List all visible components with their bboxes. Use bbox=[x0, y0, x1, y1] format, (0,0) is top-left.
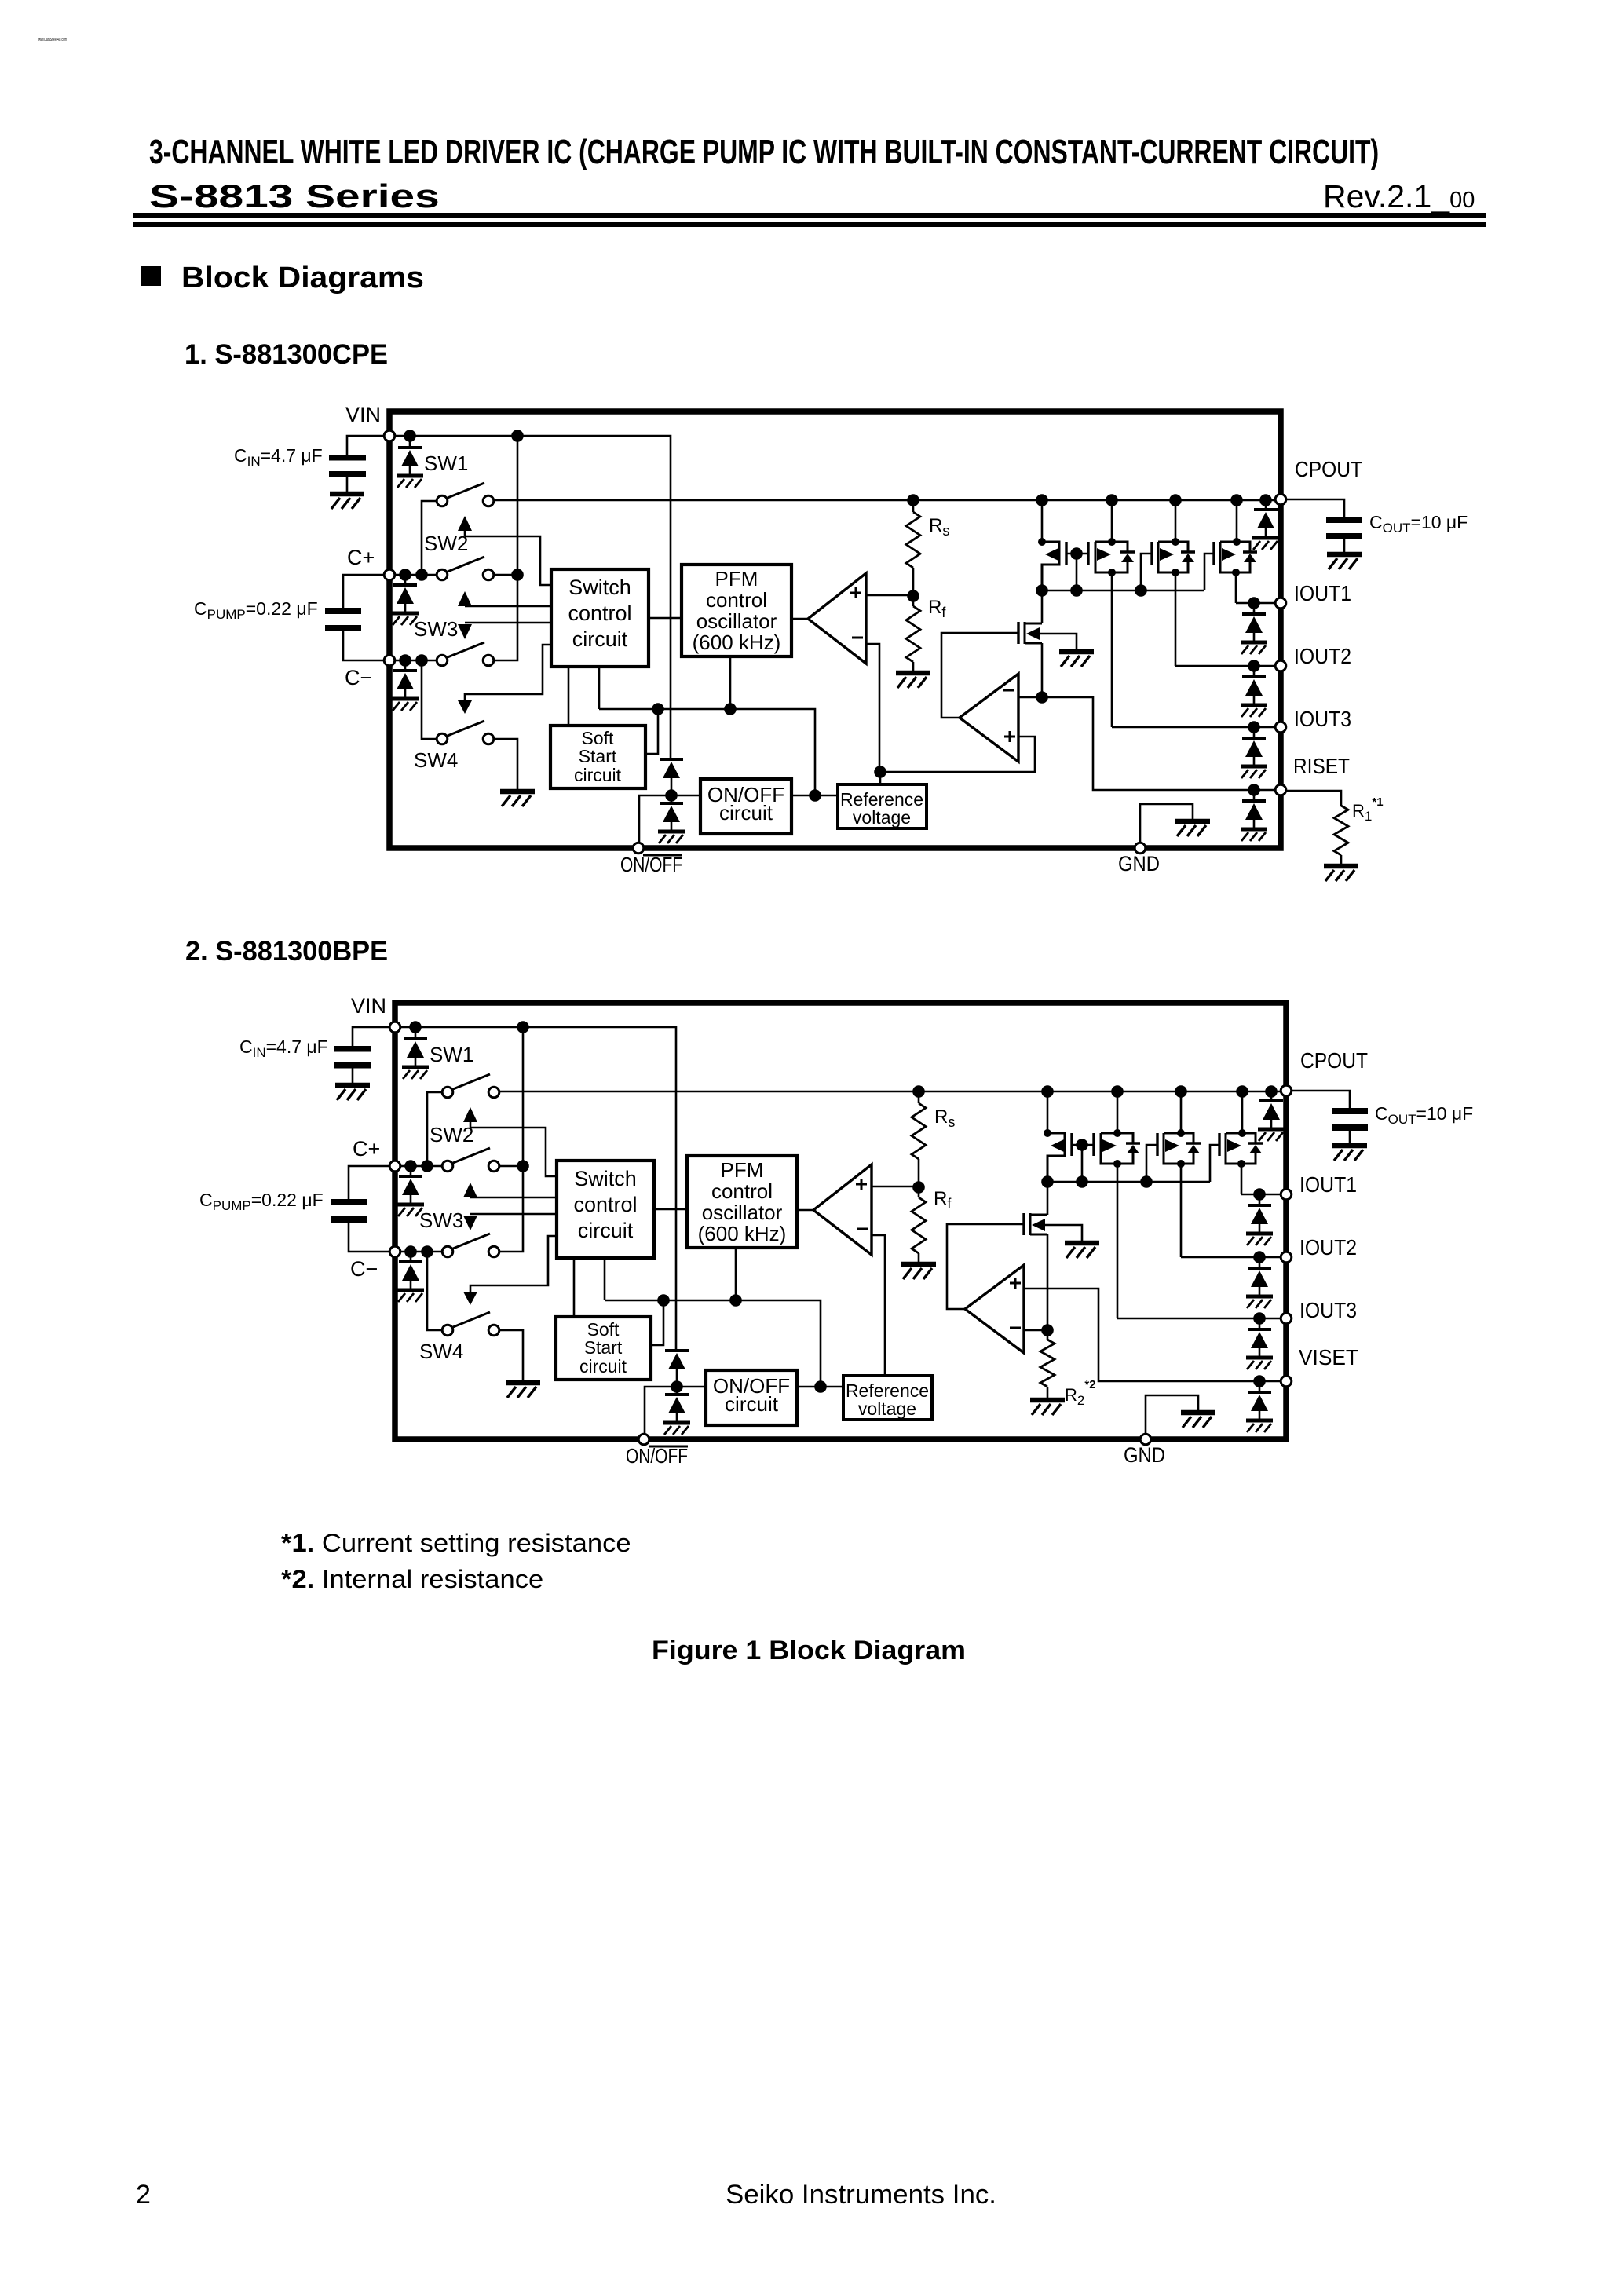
pin IOUT2 bbox=[1275, 660, 1286, 671]
ground (GND pin) bbox=[1181, 1413, 1215, 1428]
resistor Rs bbox=[912, 500, 915, 512]
svg-text:Switch: Switch bbox=[574, 1167, 637, 1190]
box Soft Start circuit bbox=[550, 726, 645, 788]
wire Q1 source to R2 bbox=[1047, 1234, 1049, 1340]
footnote 1 bbox=[281, 1530, 631, 1558]
svg-text:control: control bbox=[568, 601, 631, 625]
svg-text:Switch: Switch bbox=[568, 576, 631, 599]
wire reference tap bbox=[879, 772, 882, 784]
header rule bbox=[133, 213, 1486, 218]
junction rail 1 bbox=[1041, 1085, 1054, 1098]
svg-text:*1. Current setting resistance: *1. Current setting resistance bbox=[281, 1530, 631, 1558]
resistor Rs bbox=[918, 1091, 920, 1103]
svg-text:IOUT2: IOUT2 bbox=[1294, 644, 1351, 668]
switch SW3 bbox=[453, 1148, 490, 1163]
junction ON/OFF clamp bbox=[665, 789, 678, 802]
junction rail 5 bbox=[1259, 494, 1272, 506]
wire IOUT2 row bbox=[1181, 1256, 1281, 1259]
svg-text:GND: GND bbox=[1118, 852, 1160, 876]
junction bus-softstart bbox=[657, 1294, 670, 1307]
diode ON/OFF clamp upper bbox=[665, 1351, 689, 1387]
wire SW2 control bbox=[470, 1128, 557, 1176]
wire PFM sync bbox=[729, 656, 732, 709]
junction reference input bbox=[809, 789, 821, 802]
junction rail 3 bbox=[1175, 1085, 1187, 1098]
diode IOUT1 clamp bbox=[1259, 1194, 1261, 1205]
svg-text:PFM: PFM bbox=[715, 567, 758, 590]
wire C2 top input to RISET bbox=[1018, 697, 1276, 790]
wire SW3 control up bbox=[465, 605, 551, 608]
svg-text:3-CHANNEL WHITE LED DRIVER IC: 3-CHANNEL WHITE LED DRIVER IC (CHARGE PU… bbox=[149, 133, 1379, 171]
junction VIN feed bbox=[511, 430, 524, 442]
diode RISET clamp bbox=[1253, 790, 1256, 801]
svg-text:R2*2: R2*2 bbox=[1065, 1378, 1096, 1408]
svg-text:2. S-881300BPE: 2. S-881300BPE bbox=[185, 936, 388, 967]
junction C- a bbox=[404, 1245, 417, 1258]
junction IOUT3 bbox=[1253, 1312, 1266, 1325]
junction T1 drain bbox=[1044, 1129, 1051, 1137]
wire T4 to IOUT1 bbox=[1241, 1164, 1243, 1194]
svg-text:COUT=10 μF: COUT=10 μF bbox=[1369, 512, 1468, 536]
box Switch control circuit bbox=[557, 1161, 654, 1258]
wire VIN-to-C- vertical bbox=[495, 436, 517, 660]
capacitor CIN wiring bbox=[347, 436, 389, 455]
wire gate bus bbox=[1042, 590, 1204, 592]
pin IOUT1 bbox=[1275, 598, 1286, 609]
junction rail 2 bbox=[1106, 494, 1118, 506]
capacitor COUT wiring bbox=[1287, 499, 1344, 517]
svg-text:VISET: VISET bbox=[1299, 1345, 1358, 1369]
junction T2 drain bbox=[1108, 538, 1116, 546]
wire ON/OFF input bbox=[645, 1387, 706, 1433]
svg-text:VIN: VIN bbox=[351, 994, 386, 1018]
junction bus T1T2 bbox=[1070, 584, 1083, 597]
box PFM control oscillator bbox=[687, 1156, 797, 1248]
transistor T4 bbox=[1212, 542, 1215, 565]
transistor Q1 NMOS bbox=[1022, 1213, 1025, 1235]
wire ON/OFF to Reference bbox=[797, 1386, 843, 1388]
junction T3 source bbox=[1177, 1160, 1185, 1168]
wire SW3 control up bbox=[470, 1197, 557, 1199]
junction gate link bbox=[1076, 1139, 1088, 1151]
wire T4 gate bbox=[1204, 554, 1214, 590]
junction bus-PFM bbox=[729, 1294, 742, 1307]
svg-text:SW2: SW2 bbox=[424, 532, 468, 555]
svg-text:Rf: Rf bbox=[934, 1188, 952, 1212]
pin ON/OFF bbox=[638, 1434, 649, 1445]
wire C2 minus input bbox=[1024, 1329, 1047, 1332]
wire IOUT3 row bbox=[1112, 726, 1276, 729]
wire CPOUT rail bbox=[495, 499, 1276, 502]
wire IOUT1 row bbox=[1241, 1194, 1281, 1196]
svg-text:C−: C− bbox=[350, 1257, 378, 1281]
junction ON/OFF clamp bbox=[671, 1380, 683, 1393]
diode IOUT2 clamp bbox=[1259, 1257, 1261, 1268]
wire Q1 source sense bbox=[1041, 643, 1044, 697]
capacitor CIN bbox=[334, 1046, 371, 1052]
junction C+ a bbox=[399, 569, 411, 581]
wire Q1 gate bbox=[947, 1224, 1024, 1309]
diode T2 body bbox=[1126, 1142, 1140, 1144]
wire GND lead bbox=[1146, 1395, 1198, 1434]
junction gate link bbox=[1070, 547, 1083, 560]
IC outline bbox=[389, 411, 1281, 848]
resistor R2 bbox=[1040, 1340, 1055, 1387]
ground (Q1 body) bbox=[1059, 652, 1094, 667]
junction bus-PFM bbox=[724, 703, 737, 715]
box Reference voltage bbox=[843, 1376, 932, 1420]
resistor Rf bbox=[918, 1187, 920, 1197]
capacitor CIN wiring bbox=[353, 1027, 395, 1046]
capacitor CPUMP bbox=[331, 1199, 367, 1205]
wire PFM to C1 bbox=[791, 618, 808, 620]
junction bus T1T2 bbox=[1076, 1175, 1088, 1188]
svg-text:SW4: SW4 bbox=[414, 748, 458, 772]
wire VIN rail (VIN pin to internal clamp column) bbox=[389, 436, 671, 759]
diode C+ clamp bbox=[410, 1166, 412, 1176]
wire T2 to IOUT3 bbox=[1111, 572, 1113, 727]
diode IOUT2 clamp bbox=[1253, 666, 1256, 677]
box Soft Start circuit bbox=[556, 1317, 651, 1380]
junction IOUT2 bbox=[1253, 1251, 1266, 1263]
junction bus T3 bbox=[1140, 1175, 1153, 1188]
box Reference voltage bbox=[838, 784, 927, 828]
wire VIN rail (VIN pin to internal clamp column) bbox=[395, 1027, 676, 1351]
capacitor CPUMP wiring bbox=[343, 575, 383, 608]
wire control bus bbox=[599, 709, 815, 795]
wire IOUT1 row bbox=[1236, 602, 1276, 605]
transistor T2 bbox=[1087, 542, 1089, 565]
wire C1 minus to reference bbox=[872, 1235, 885, 1376]
transistor T4 bbox=[1218, 1133, 1220, 1156]
box ON/OFF circuit bbox=[700, 779, 791, 834]
svg-text:control: control bbox=[711, 1179, 773, 1203]
ground (Q1 body) bbox=[1065, 1243, 1099, 1258]
svg-text:SW2: SW2 bbox=[430, 1123, 473, 1146]
pin IOUT3 bbox=[1281, 1313, 1292, 1324]
node C- row bbox=[395, 1251, 441, 1253]
capacitor CPUMP wiring bbox=[349, 1166, 389, 1199]
svg-text:IOUT3: IOUT3 bbox=[1294, 707, 1351, 731]
svg-text:C−: C− bbox=[345, 666, 372, 689]
diode SW1 clamp bbox=[409, 436, 411, 448]
pin ON/OFF bbox=[633, 843, 644, 854]
wire Switch-PFM bbox=[654, 1208, 687, 1211]
pin GND bbox=[1135, 843, 1146, 854]
svg-text:*2. Internal resistance: *2. Internal resistance bbox=[281, 1566, 543, 1594]
junction VIN feed bbox=[517, 1021, 529, 1033]
box ON/OFF circuit bbox=[706, 1370, 797, 1425]
pin C+ bbox=[384, 569, 395, 580]
switch SW4 upper contacts bbox=[448, 642, 484, 657]
svg-text:GND: GND bbox=[1124, 1443, 1165, 1467]
pin C- bbox=[389, 1246, 400, 1257]
wire PFM sync bbox=[735, 1248, 737, 1300]
svg-text:C+: C+ bbox=[353, 1137, 380, 1161]
ground (COUT) bbox=[1332, 1146, 1367, 1161]
section heading Block Diagrams bbox=[141, 266, 161, 286]
wire T2 to IOUT3 bbox=[1117, 1164, 1119, 1318]
node C+ row bbox=[389, 574, 436, 576]
junction VIN-SW1 bbox=[409, 1021, 422, 1033]
wire GND lead bbox=[1140, 804, 1193, 843]
resistor R1 wiring bbox=[1287, 791, 1341, 806]
svg-text:SW1: SW1 bbox=[430, 1043, 473, 1066]
svg-text:COUT=10 μF: COUT=10 μF bbox=[1375, 1103, 1473, 1127]
ground (Rf) bbox=[901, 1264, 936, 1279]
label ON/OFF bbox=[649, 1446, 688, 1448]
junction C+ c bbox=[517, 1160, 529, 1172]
ground (SW4) bbox=[500, 792, 535, 806]
capacitor COUT bbox=[1332, 1108, 1368, 1114]
wire C1 minus to reference node bbox=[866, 644, 1035, 772]
junction T4 drain bbox=[1233, 538, 1241, 546]
svg-text:circuit: circuit bbox=[578, 1219, 634, 1242]
wire SoftStart link bbox=[651, 1300, 663, 1345]
op-amp comparator C1 bbox=[813, 1164, 872, 1255]
svg-text:IOUT2: IOUT2 bbox=[1299, 1235, 1357, 1260]
junction bus-softstart bbox=[652, 703, 664, 715]
junction IOUT3 bbox=[1248, 721, 1260, 733]
wire SW4 control bbox=[470, 1236, 557, 1292]
transistor T1 bbox=[1047, 1091, 1049, 1133]
ground (COUT) bbox=[1327, 554, 1362, 569]
junction T1 drain bbox=[1038, 538, 1046, 546]
capacitor COUT bbox=[1326, 517, 1362, 523]
svg-text:Rf: Rf bbox=[928, 597, 946, 620]
wire control bus bbox=[605, 1300, 821, 1387]
switch SW4 bbox=[422, 660, 436, 739]
wire SoftStart link bbox=[645, 709, 658, 754]
svg-text:control: control bbox=[706, 588, 767, 612]
diode IOUT1 clamp bbox=[1253, 603, 1256, 614]
svg-text:1. S-881300CPE: 1. S-881300CPE bbox=[185, 339, 388, 370]
svg-text:PFM: PFM bbox=[721, 1158, 764, 1182]
ground (R1) bbox=[1324, 866, 1358, 881]
diode SW1 clamp bbox=[415, 1027, 417, 1039]
wire T1-T2 gate link bbox=[1066, 553, 1088, 555]
svg-text:(600 kHz): (600 kHz) bbox=[693, 631, 781, 654]
junction T2 source bbox=[1113, 1160, 1121, 1168]
svg-text:CPUMP=0.22 μF: CPUMP=0.22 μF bbox=[199, 1190, 324, 1213]
junction IOUT1 bbox=[1248, 597, 1260, 609]
junction reference input bbox=[814, 1380, 827, 1393]
wire T4 gate bbox=[1210, 1145, 1219, 1182]
pin IOUT2 bbox=[1281, 1252, 1292, 1263]
wire SW2 control bbox=[465, 536, 551, 585]
svg-text:Rs: Rs bbox=[929, 515, 949, 539]
svg-text:Start: Start bbox=[584, 1337, 623, 1358]
switch SW2 bbox=[427, 1092, 441, 1166]
junction reference node bbox=[874, 766, 886, 778]
header product bbox=[149, 177, 440, 214]
box PFM control oscillator bbox=[682, 565, 791, 656]
junction T4 source bbox=[1232, 569, 1240, 576]
junction R2 node bbox=[1041, 1324, 1054, 1336]
transistor T3 bbox=[1156, 1133, 1158, 1156]
svg-text:Rs: Rs bbox=[934, 1106, 955, 1130]
switch SW4 bbox=[427, 1252, 441, 1330]
wire C1 plus input bbox=[866, 594, 909, 597]
junction T3 source bbox=[1172, 569, 1179, 576]
diode IOUT3 clamp bbox=[1259, 1318, 1261, 1329]
wire IOUT3 row bbox=[1117, 1318, 1281, 1320]
svg-text:SW3: SW3 bbox=[419, 1208, 463, 1232]
svg-text:oscillator: oscillator bbox=[702, 1201, 783, 1224]
ground (R2) bbox=[1030, 1400, 1065, 1415]
wire Q1 gate bbox=[941, 633, 1018, 718]
svg-text:CIN=4.7 μF: CIN=4.7 μF bbox=[239, 1036, 328, 1060]
junction C- b bbox=[421, 1245, 433, 1258]
transistor T1 bbox=[1041, 500, 1044, 542]
wire ON/OFF input bbox=[639, 795, 700, 842]
svg-text:Seiko Instruments Inc.: Seiko Instruments Inc. bbox=[726, 2180, 996, 2210]
wire C2 plus input to VISET bbox=[1024, 1289, 1281, 1381]
transistor T2 bbox=[1092, 1133, 1095, 1156]
diode T2 body bbox=[1120, 550, 1135, 553]
svg-text:oscillator: oscillator bbox=[696, 609, 777, 633]
ground (GND pin) bbox=[1175, 821, 1210, 836]
junction rail 2 bbox=[1111, 1085, 1124, 1098]
junction rail 4 bbox=[1236, 1085, 1248, 1098]
node C- row bbox=[389, 660, 436, 662]
junction bus T1 bbox=[1041, 1175, 1054, 1188]
junction C+ a bbox=[404, 1160, 417, 1172]
diode IOUT3 clamp bbox=[1253, 727, 1256, 738]
wire SW3 control down bbox=[470, 1213, 557, 1216]
diode T3 body bbox=[1186, 1142, 1201, 1144]
svg-text:www.DataSheet4U.com: www.DataSheet4U.com bbox=[38, 38, 67, 42]
svg-text:CPUMP=0.22 μF: CPUMP=0.22 μF bbox=[194, 598, 318, 622]
switch SW2 bbox=[422, 501, 436, 575]
svg-text:Block Diagrams: Block Diagrams bbox=[181, 261, 424, 294]
svg-text:circuit: circuit bbox=[579, 1356, 627, 1377]
junction RISET bbox=[1248, 784, 1260, 796]
diode ON/OFF clamp lower bbox=[676, 1387, 678, 1395]
junction Rs top bbox=[912, 1085, 925, 1098]
wire T3 gate bbox=[1141, 554, 1152, 590]
svg-text:RISET: RISET bbox=[1293, 754, 1350, 778]
wire CPOUT rail bbox=[500, 1091, 1281, 1093]
diode C- clamp bbox=[404, 660, 407, 671]
capacitor CPUMP bbox=[325, 608, 361, 614]
svg-text:CPOUT: CPOUT bbox=[1295, 457, 1362, 481]
svg-text:ON/OFF: ON/OFF bbox=[626, 1444, 688, 1468]
svg-text:control: control bbox=[573, 1193, 637, 1216]
svg-text:CIN=4.7 μF: CIN=4.7 μF bbox=[234, 445, 323, 469]
junction T3 drain bbox=[1172, 538, 1179, 546]
ground (CIN) bbox=[335, 1085, 370, 1100]
label ON/OFF bbox=[643, 854, 682, 857]
junction rail 3 bbox=[1169, 494, 1182, 506]
ground (CIN) bbox=[330, 494, 364, 509]
IC outline bbox=[395, 1003, 1286, 1439]
svg-text:IOUT1: IOUT1 bbox=[1294, 581, 1351, 605]
wire SW3 control down bbox=[465, 622, 551, 624]
svg-text:CPOUT: CPOUT bbox=[1300, 1048, 1368, 1073]
diode RISET clamp bbox=[1259, 1381, 1261, 1392]
wire ON/OFF to Reference bbox=[791, 795, 838, 797]
junction T4 source bbox=[1237, 1160, 1245, 1168]
switch SW4 upper contacts bbox=[453, 1234, 490, 1249]
resistor Rf bbox=[912, 596, 915, 606]
pin C- bbox=[384, 655, 395, 666]
wire PFM to C1 bbox=[797, 1209, 813, 1212]
junction Rs-Rf bbox=[907, 590, 919, 602]
junction IOUT1 bbox=[1253, 1188, 1266, 1201]
diode ON/OFF clamp upper bbox=[660, 759, 683, 795]
junction RISET bbox=[1253, 1375, 1266, 1387]
diode CPOUT clamp bbox=[1270, 1091, 1273, 1101]
svg-text:Rev.2.1_00: Rev.2.1_00 bbox=[1323, 178, 1475, 214]
junction C- b bbox=[415, 654, 428, 667]
svg-text:circuit: circuit bbox=[574, 765, 622, 785]
diode C- clamp bbox=[410, 1252, 412, 1262]
svg-text:circuit: circuit bbox=[719, 801, 773, 824]
pin VISET bbox=[1281, 1376, 1292, 1387]
svg-text:VIN: VIN bbox=[345, 403, 381, 426]
junction T2 source bbox=[1108, 569, 1116, 576]
ground (SW4) bbox=[506, 1383, 540, 1398]
op-amp comparator C1 bbox=[808, 573, 866, 664]
svg-text:2: 2 bbox=[136, 2180, 151, 2210]
junction Rs top bbox=[907, 494, 919, 506]
op-amp C2 bbox=[960, 674, 1018, 762]
pin C+ bbox=[389, 1161, 400, 1172]
pin GND bbox=[1140, 1434, 1151, 1445]
svg-text:IOUT3: IOUT3 bbox=[1299, 1298, 1357, 1322]
pin CPOUT bbox=[1275, 494, 1286, 505]
transistor Q1 NMOS bbox=[1017, 622, 1019, 644]
op-amp C2 bbox=[965, 1265, 1024, 1353]
svg-text:Start: Start bbox=[579, 746, 617, 766]
junction VIN-SW1 bbox=[404, 430, 416, 442]
diode T4 body bbox=[1243, 550, 1257, 553]
svg-text:circuit: circuit bbox=[725, 1392, 779, 1416]
svg-text:IOUT1: IOUT1 bbox=[1299, 1172, 1357, 1197]
junction rail 4 bbox=[1230, 494, 1243, 506]
pin IOUT1 bbox=[1281, 1189, 1292, 1200]
wire C1 plus input bbox=[872, 1186, 915, 1188]
svg-text:ON/OFF: ON/OFF bbox=[620, 853, 682, 876]
wire Switch-PFM bbox=[649, 617, 682, 620]
pin CPOUT bbox=[1281, 1085, 1292, 1096]
pin VIN bbox=[384, 430, 395, 441]
junction C- a bbox=[399, 654, 411, 667]
wire SW4 control bbox=[465, 645, 551, 700]
svg-text:voltage: voltage bbox=[858, 1398, 916, 1419]
capacitor CIN bbox=[329, 455, 366, 461]
svg-text:R1*1: R1*1 bbox=[1352, 795, 1384, 824]
junction rail 5 bbox=[1265, 1085, 1278, 1098]
diode T4 body bbox=[1248, 1142, 1263, 1144]
wire VIN-to-C- vertical bbox=[500, 1027, 523, 1252]
capacitor COUT wiring bbox=[1292, 1091, 1350, 1108]
junction C+ b bbox=[421, 1160, 433, 1172]
pin VIN bbox=[389, 1022, 400, 1033]
junction C+ b bbox=[415, 569, 428, 581]
resistor R1 bbox=[1334, 806, 1348, 855]
pin RISET bbox=[1275, 784, 1286, 795]
junction T3 drain bbox=[1177, 1129, 1185, 1137]
wire T3 to IOUT2 bbox=[1180, 1164, 1183, 1257]
wire IOUT2 row bbox=[1175, 665, 1276, 667]
svg-text:C+: C+ bbox=[347, 546, 375, 569]
svg-text:voltage: voltage bbox=[853, 807, 911, 828]
svg-text:Figure 1 Block Diagram: Figure 1 Block Diagram bbox=[652, 1636, 966, 1665]
wire T3 gate bbox=[1146, 1145, 1157, 1182]
pin IOUT3 bbox=[1275, 722, 1286, 733]
